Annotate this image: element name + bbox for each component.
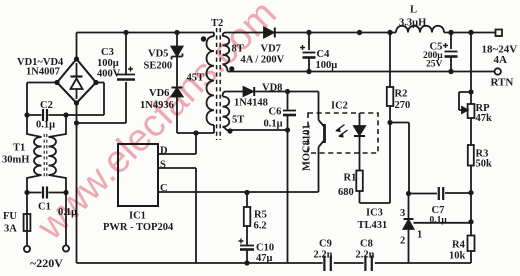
wire primary top rail xyxy=(77,32,215,34)
svg-text:R5: R5 xyxy=(254,210,267,221)
node C10 bottom xyxy=(244,260,249,265)
svg-text:8T: 8T xyxy=(232,44,244,55)
light arrows xyxy=(335,125,347,138)
node C4 top xyxy=(306,30,311,35)
resistor R5 xyxy=(244,193,251,245)
capacitor C4 xyxy=(300,33,316,72)
capacitor C1 xyxy=(27,187,66,199)
node B- xyxy=(74,120,79,125)
wire R2 node down xyxy=(389,123,391,204)
node C pin R5 xyxy=(244,190,249,195)
svg-text:TL431: TL431 xyxy=(358,220,388,231)
svg-text:47k: 47k xyxy=(476,113,493,124)
diode VD5 SE200 zener xyxy=(172,33,183,88)
svg-text:3.3μH: 3.3μH xyxy=(399,18,426,29)
svg-text:C3: C3 xyxy=(101,47,114,58)
wire 5T return xyxy=(226,129,288,131)
node RP wiper tap xyxy=(468,89,473,94)
terminal RTN xyxy=(495,68,501,74)
node C1 left xyxy=(24,190,29,195)
inductor T1 common-mode choke xyxy=(27,115,66,193)
svg-text:VD6: VD6 xyxy=(149,88,169,99)
node C5 top xyxy=(448,30,453,35)
svg-text:~220V: ~220V xyxy=(30,256,63,270)
node TL431 cathode xyxy=(406,191,411,196)
svg-text:R2: R2 xyxy=(395,89,408,100)
svg-text:4A / 200V: 4A / 200V xyxy=(241,55,285,66)
svg-text:C10: C10 xyxy=(256,243,274,254)
svg-text:C9: C9 xyxy=(319,239,332,250)
svg-text:5T: 5T xyxy=(232,115,244,126)
svg-text:100μ: 100μ xyxy=(97,58,119,69)
wire bridge right AC arm xyxy=(66,83,104,116)
svg-text:0.1μ: 0.1μ xyxy=(264,119,283,130)
svg-text:100μ: 100μ xyxy=(316,60,338,71)
node C6 top xyxy=(285,89,290,94)
svg-text:VD7: VD7 xyxy=(261,44,281,55)
svg-text:T2: T2 xyxy=(211,18,223,29)
svg-text:IC3: IC3 xyxy=(366,208,383,219)
wire drain node xyxy=(177,132,214,134)
node D junction xyxy=(193,130,198,135)
svg-text:D: D xyxy=(160,146,168,157)
wire divider xyxy=(470,33,472,264)
capacitor C8 xyxy=(365,256,371,272)
svg-text:VD5: VD5 xyxy=(148,49,168,60)
wire C pin xyxy=(158,153,319,192)
terminal output plus xyxy=(496,30,503,37)
resistor R3 xyxy=(468,145,474,166)
svg-text:1N4148: 1N4148 xyxy=(234,98,268,109)
svg-text:FU: FU xyxy=(3,211,17,222)
node R2 top xyxy=(387,30,392,35)
terminal input L xyxy=(24,246,30,252)
capacitor C6 xyxy=(283,92,296,264)
resistor R1 xyxy=(356,171,390,204)
inductor L xyxy=(396,26,444,33)
wire VD8 to opto collector xyxy=(255,92,319,114)
resistor R2 xyxy=(387,33,394,123)
svg-text:2: 2 xyxy=(400,236,405,247)
svg-text:C8: C8 xyxy=(360,239,373,250)
diode opto LED xyxy=(354,113,365,171)
svg-text:MOC8101: MOC8101 xyxy=(302,124,313,171)
svg-text:4A: 4A xyxy=(494,54,508,66)
wire input N xyxy=(65,193,67,246)
node C2 left xyxy=(24,112,29,117)
transformer T2 primary 45T xyxy=(201,33,214,134)
svg-text:1N4936: 1N4936 xyxy=(140,100,174,111)
svg-text:S: S xyxy=(160,160,166,171)
svg-text:IC1: IC1 xyxy=(129,211,146,222)
wire RTN rail xyxy=(228,71,495,73)
capacitor C2 xyxy=(27,109,66,121)
wire B- to C3 xyxy=(77,122,127,124)
capacitor C10 xyxy=(239,239,255,264)
transistor opto phototransistor xyxy=(319,113,325,153)
svg-text:270: 270 xyxy=(395,100,411,111)
transformer T2 secondary 8T xyxy=(223,33,265,72)
wire secondary top rail xyxy=(276,32,496,34)
IC3 TL431 xyxy=(404,194,472,264)
svg-text:C: C xyxy=(160,183,168,194)
IC1 PWR TOP204 box xyxy=(118,144,158,206)
node divider top xyxy=(468,30,473,35)
node opto feed top xyxy=(357,30,362,35)
node C1 right xyxy=(63,190,68,195)
node 5T return C6 xyxy=(285,127,290,132)
node divider C7 xyxy=(468,190,473,195)
svg-text:30mH: 30mH xyxy=(2,155,29,166)
svg-text:400V: 400V xyxy=(97,69,121,80)
svg-text:2.2n: 2.2n xyxy=(314,250,333,261)
svg-text:0.1μ: 0.1μ xyxy=(430,216,448,226)
transformer T2 bias 5T xyxy=(223,92,233,134)
wire 5T to VD8 xyxy=(226,91,244,93)
terminal input N xyxy=(63,245,69,251)
svg-text:10k: 10k xyxy=(449,251,466,262)
svg-text:3: 3 xyxy=(400,208,405,219)
svg-text:SE200: SE200 xyxy=(144,61,173,72)
svg-text:R4: R4 xyxy=(452,240,466,251)
watermark www.elecfans.com xyxy=(28,0,285,249)
node VD5 top xyxy=(174,30,179,35)
svg-text:2.2n: 2.2n xyxy=(356,250,375,261)
svg-text:PWR - TOP204: PWR - TOP204 xyxy=(103,222,174,233)
svg-text:1N4007: 1N4007 xyxy=(26,67,60,78)
capacitor C3 xyxy=(117,33,135,124)
transformer T2 core xyxy=(217,28,221,140)
node C3 top xyxy=(123,30,128,35)
node C5 bottom xyxy=(448,69,453,74)
svg-text:T1: T1 xyxy=(13,143,25,154)
wire bridge output to rail xyxy=(76,33,78,60)
fuse FU xyxy=(24,193,31,246)
svg-text:R1: R1 xyxy=(344,173,357,184)
node divider ref xyxy=(468,219,473,224)
svg-text:25V: 25V xyxy=(426,60,443,70)
svg-text:45T: 45T xyxy=(187,73,205,84)
svg-text:C4: C4 xyxy=(317,49,331,60)
svg-text:RTN: RTN xyxy=(491,77,514,89)
potentiometer RP xyxy=(459,92,474,118)
svg-text:3A: 3A xyxy=(4,224,17,235)
wire R2 node to TL431 cathode xyxy=(390,123,409,194)
wire B- rail xyxy=(77,103,472,263)
svg-text:IC2: IC2 xyxy=(331,101,348,112)
capacitor C7 xyxy=(409,187,472,200)
wire D pin xyxy=(158,133,196,154)
capacitor C9 xyxy=(324,256,330,272)
svg-text:0.1μ: 0.1μ xyxy=(36,120,55,131)
svg-text:C1: C1 xyxy=(38,202,51,213)
svg-text:L: L xyxy=(410,5,417,16)
svg-text:VD8: VD8 xyxy=(262,83,282,94)
svg-text:50k: 50k xyxy=(476,159,493,170)
capacitor C5 xyxy=(443,33,458,72)
svg-text:680: 680 xyxy=(338,187,354,198)
bridge rectifier VD1~VD4 xyxy=(54,56,98,105)
svg-text:C2: C2 xyxy=(40,100,53,111)
svg-text:C6: C6 xyxy=(269,107,282,118)
diode VD7 xyxy=(264,28,275,38)
svg-text:C7: C7 xyxy=(432,205,445,216)
diode VD6 1N4936 xyxy=(172,88,183,134)
wire S pin xyxy=(158,168,196,263)
svg-text:0.1μ: 0.1μ xyxy=(58,207,77,218)
svg-text:47μ: 47μ xyxy=(256,253,273,264)
node R2 bottom xyxy=(387,120,392,125)
svg-text:1: 1 xyxy=(417,230,422,241)
wire bridge left AC arm xyxy=(27,83,57,116)
diode VD8 1N4148 xyxy=(244,87,255,96)
node C2 right xyxy=(63,112,68,117)
node C4 bottom xyxy=(306,69,311,74)
svg-text:6.2: 6.2 xyxy=(254,221,267,232)
op-amp IC2 MOC8101 box xyxy=(308,113,378,153)
resistor R4 xyxy=(468,236,475,252)
